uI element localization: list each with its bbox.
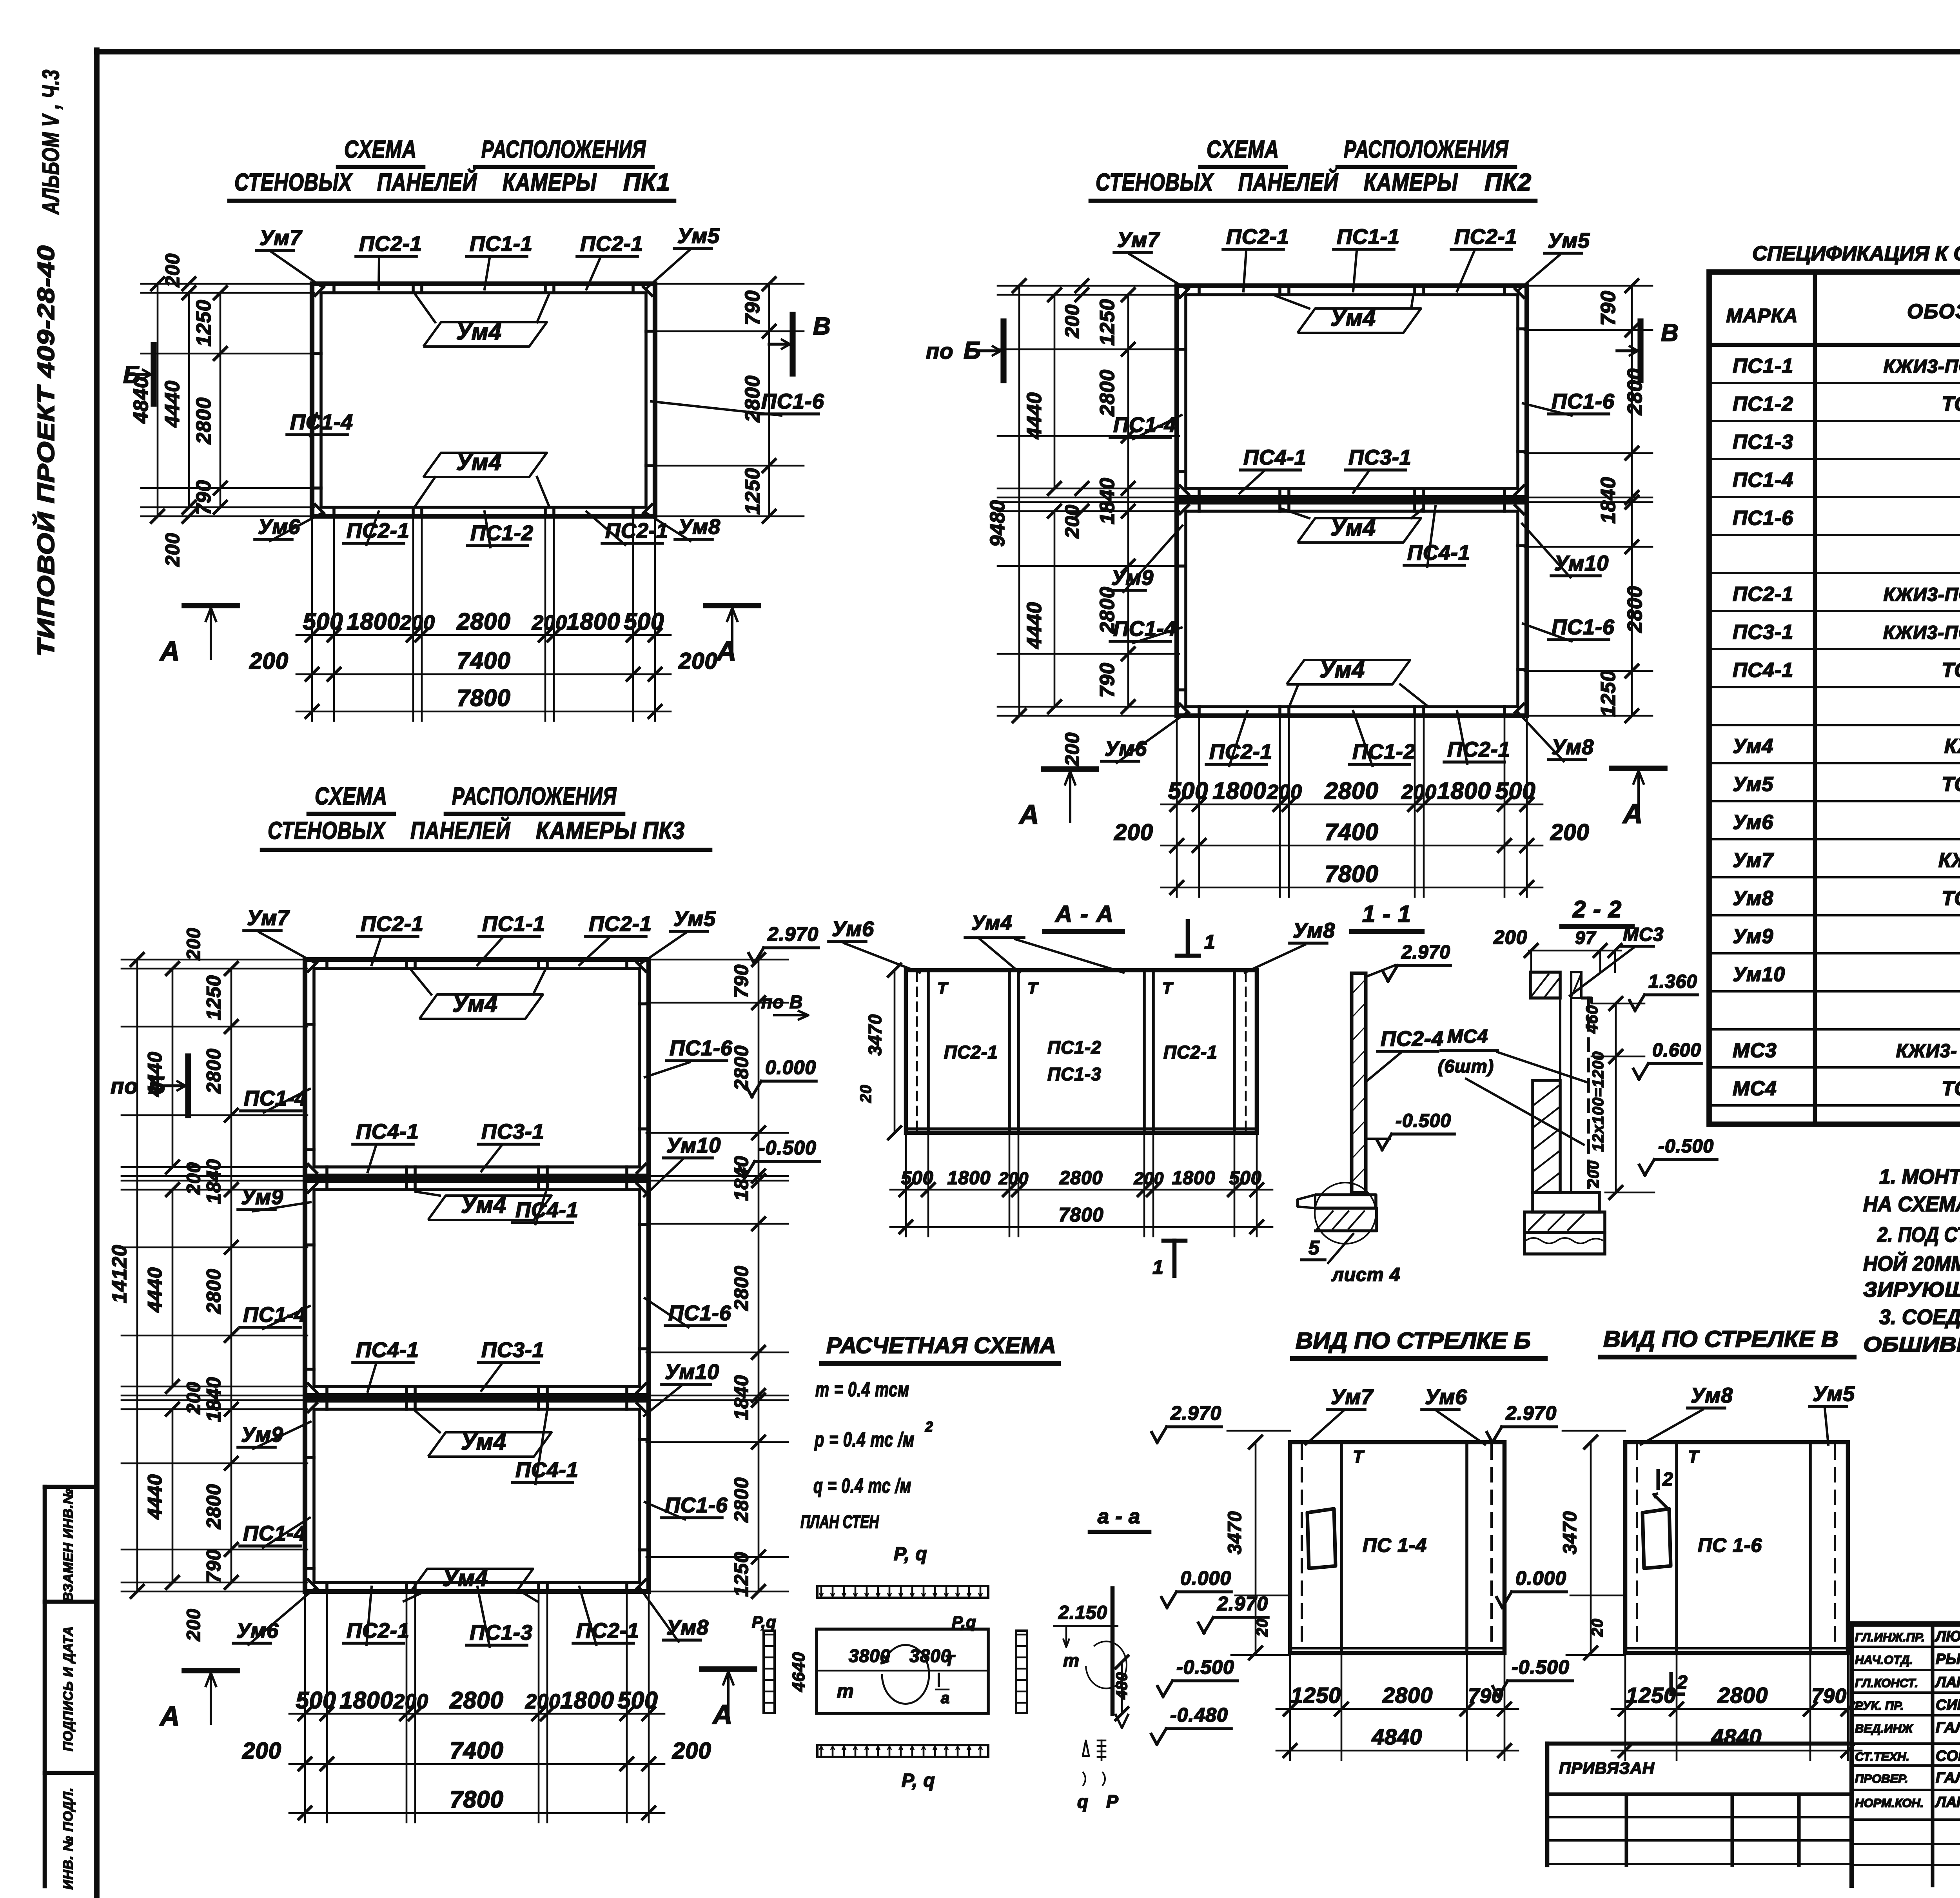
svg-text:Ум6: Ум6 (1733, 811, 1773, 834)
svg-text:РАСПОЛОЖЕНИЯ: РАСПОЛОЖЕНИЯ (1344, 136, 1509, 163)
svg-text:2800: 2800 (730, 1045, 752, 1091)
svg-text:200: 200 (242, 1738, 281, 1764)
svg-text:КЖИ3-ПС1-1÷ПС1-7: КЖИ3-ПС1-1÷ПС1-7 (1884, 356, 1960, 377)
svg-text:97: 97 (1575, 927, 1597, 948)
svg-text:ПС2-1: ПС2-1 (580, 232, 643, 256)
svg-text:1840: 1840 (203, 1377, 225, 1422)
svg-text:1800: 1800 (1437, 778, 1491, 804)
svg-text:Ум5: Ум5 (677, 224, 720, 248)
svg-text:2800: 2800 (203, 1048, 225, 1094)
svg-text:В: В (1661, 319, 1679, 347)
svg-text:ГЛ.ИНЖ.ПР.: ГЛ.ИНЖ.ПР. (1855, 1630, 1925, 1644)
svg-text:7800: 7800 (1325, 861, 1378, 887)
svg-text:2800: 2800 (1624, 586, 1646, 633)
svg-text:460: 460 (1583, 1005, 1601, 1034)
svg-text:(6шт): (6шт) (1438, 1056, 1494, 1076)
svg-text:ГАЛЬПЕРИНА: ГАЛЬПЕРИНА (1936, 1720, 1960, 1736)
svg-text:Ум8: Ум8 (1293, 919, 1335, 942)
svg-text:200: 200 (249, 648, 289, 674)
svg-text:790: 790 (1811, 1685, 1847, 1707)
svg-text:А - А: А - А (1054, 901, 1114, 927)
svg-text:200: 200 (1061, 732, 1083, 766)
svg-text:РАСПОЛОЖЕНИЯ: РАСПОЛОЖЕНИЯ (452, 783, 617, 810)
svg-text:ПС3-1: ПС3-1 (1348, 446, 1412, 469)
svg-text:Ум5: Ум5 (1733, 773, 1773, 796)
svg-text:ОБШИВКИ ( ∠90 х 70 х 4) СМ.: ОБШИВКИ ( ∠90 х 70 х 4) СМ. УЗЕЛ 6 НА ЛИ… (1863, 1333, 1960, 1356)
svg-text:1840: 1840 (1597, 477, 1620, 524)
svg-text:Т: Т (945, 1652, 956, 1669)
svg-text:1: 1 (1204, 931, 1216, 953)
svg-text:МС3: МС3 (1733, 1039, 1777, 1062)
svg-text:НОЙ 20ММ , ИЗ БЕТОНА МАРКИ: НОЙ 20ММ , ИЗ БЕТОНА МАРКИ 100 НА МЕЛКОМ… (1863, 1251, 1960, 1276)
svg-text:А: А (1622, 798, 1643, 829)
svg-text:ПС1-6: ПС1-6 (670, 1036, 733, 1060)
svg-text:m: m (837, 1681, 854, 1702)
svg-text:0.000: 0.000 (1515, 1567, 1566, 1589)
svg-text:-0.500: -0.500 (1512, 1656, 1570, 1678)
svg-text:790: 790 (1597, 290, 1620, 326)
svg-text:Т: Т (937, 979, 949, 997)
svg-text:Б: Б (964, 337, 981, 364)
svg-text:4640: 4640 (789, 1652, 808, 1692)
svg-text:ПС2-1: ПС2-1 (605, 519, 668, 543)
svg-text:1250: 1250 (741, 468, 764, 515)
svg-text:3470: 3470 (1225, 1511, 1245, 1555)
svg-text:ПС2-1: ПС2-1 (944, 1042, 998, 1062)
svg-text:Ум9: Ум9 (241, 1423, 283, 1446)
svg-text:200: 200 (183, 1608, 204, 1641)
svg-text:СХЕМА: СХЕМА (315, 783, 387, 810)
svg-text:200: 200 (1114, 820, 1153, 845)
svg-text:ПРИВЯЗАН: ПРИВЯЗАН (1559, 1759, 1655, 1777)
svg-text:ТО ЖЕ: ТО ЖЕ (1942, 887, 1960, 910)
svg-text:Ум5: Ум5 (1548, 229, 1590, 252)
svg-text:1250: 1250 (1597, 670, 1620, 717)
svg-text:Т: Т (1688, 1447, 1700, 1466)
svg-text:200: 200 (1267, 781, 1302, 804)
svg-text:ПС4-1: ПС4-1 (1733, 659, 1793, 682)
svg-text:Ум5: Ум5 (673, 907, 716, 931)
svg-text:ПС2-1: ПС2-1 (1209, 740, 1272, 764)
svg-text:ПС2-1: ПС2-1 (1447, 738, 1510, 761)
svg-text:ПС4-1: ПС4-1 (356, 1338, 419, 1362)
svg-text:АЛЬБОМ V , Ч.3: АЛЬБОМ V , Ч.3 (38, 69, 64, 215)
svg-text:НОРМ.КОН.: НОРМ.КОН. (1855, 1796, 1924, 1810)
svg-text:ПС 1-6: ПС 1-6 (1698, 1534, 1762, 1556)
svg-text:Б: Б (148, 1072, 166, 1099)
svg-text:200: 200 (162, 253, 183, 287)
svg-text:ВЕД.ИНЖ: ВЕД.ИНЖ (1855, 1722, 1914, 1735)
svg-text:4440: 4440 (161, 380, 184, 428)
svg-text:4440: 4440 (144, 1267, 166, 1312)
svg-text:А: А (159, 636, 180, 666)
svg-text:1250: 1250 (192, 299, 215, 347)
svg-text:p = 0.4 тс /м: p = 0.4 тс /м (814, 1428, 915, 1451)
svg-text:ПС1-4: ПС1-4 (1113, 617, 1176, 641)
svg-text:P, q: P, q (894, 1544, 927, 1564)
svg-text:200: 200 (1585, 1160, 1602, 1188)
svg-text:4840: 4840 (1372, 1724, 1423, 1749)
svg-text:2 - 2: 2 - 2 (1572, 896, 1622, 922)
svg-text:Т: Т (1162, 979, 1174, 997)
svg-text:РУК. ПР.: РУК. ПР. (1855, 1699, 1904, 1713)
svg-text:Ум8: Ум8 (1691, 1384, 1733, 1407)
svg-text:1800: 1800 (1172, 1168, 1216, 1189)
svg-text:Ум7: Ум7 (1331, 1385, 1374, 1409)
svg-text:500: 500 (296, 1687, 336, 1713)
svg-text:2: 2 (1662, 1469, 1673, 1490)
svg-text:1840: 1840 (203, 1159, 225, 1204)
svg-text:ПС4-1: ПС4-1 (515, 1198, 579, 1222)
svg-text:ГАЛЬПЕРИНА: ГАЛЬПЕРИНА (1936, 1770, 1960, 1786)
svg-text:ПС2-4: ПС2-4 (1381, 1027, 1444, 1051)
svg-text:7800: 7800 (450, 1786, 503, 1813)
svg-text:2800: 2800 (1059, 1168, 1103, 1189)
svg-text:1800: 1800 (566, 608, 620, 635)
svg-text:РЫБКИНА: РЫБКИНА (1936, 1651, 1960, 1668)
svg-text:200: 200 (1401, 781, 1437, 804)
svg-text:ПС1-1: ПС1-1 (482, 912, 545, 936)
svg-text:2800: 2800 (741, 375, 764, 423)
svg-text:ПРОВЕР.: ПРОВЕР. (1855, 1772, 1908, 1785)
svg-text:200: 200 (1061, 504, 1083, 539)
svg-text:ПС1-1: ПС1-1 (1733, 355, 1793, 377)
svg-text:СТЕНОВЫХ: СТЕНОВЫХ (1096, 169, 1214, 196)
svg-text:0.000: 0.000 (765, 1056, 816, 1078)
svg-text:2.970: 2.970 (1505, 1402, 1557, 1424)
svg-text:P,q: P,q (952, 1613, 976, 1631)
svg-text:ПС2-1: ПС2-1 (1733, 583, 1793, 606)
svg-text:9480: 9480 (986, 500, 1009, 547)
svg-text:2: 2 (1677, 1672, 1688, 1693)
svg-text:ВИД ПО СТРЕЛКЕ В: ВИД ПО СТРЕЛКЕ В (1603, 1326, 1838, 1352)
svg-text:m = 0.4 тсм: m = 0.4 тсм (815, 1378, 909, 1401)
svg-text:ПС1-6: ПС1-6 (761, 390, 824, 413)
svg-text:-0.500: -0.500 (1396, 1110, 1451, 1131)
svg-text:2800: 2800 (1096, 369, 1119, 417)
svg-text:КЖИ3-ПС2-1÷ПС2-5: КЖИ3-ПС2-1÷ПС2-5 (1884, 584, 1960, 605)
svg-text:1. МОНТАЖ СТЕНОВЫХ ПАНЕЛЕЙ: 1. МОНТАЖ СТЕНОВЫХ ПАНЕЛЕЙ ВЕСТИ В СООТВ… (1879, 1164, 1960, 1189)
svg-text:КАМЕРЫ: КАМЕРЫ (503, 169, 597, 196)
svg-text:ПС4-1: ПС4-1 (515, 1458, 579, 1482)
svg-text:ПК2: ПК2 (1485, 169, 1532, 196)
svg-text:-0.500: -0.500 (1176, 1656, 1234, 1678)
svg-text:ТО ЖЕ: ТО ЖЕ (1942, 393, 1960, 416)
svg-text:ПС1-3: ПС1-3 (1047, 1064, 1102, 1084)
svg-text:0.600: 0.600 (1652, 1040, 1701, 1061)
svg-text:20: 20 (1254, 1619, 1271, 1637)
svg-text:200: 200 (399, 611, 435, 634)
svg-text:200: 200 (1134, 1169, 1164, 1188)
svg-text:ПС1-6: ПС1-6 (1552, 615, 1615, 639)
svg-text:2800: 2800 (456, 608, 510, 635)
svg-text:ПС3-1: ПС3-1 (481, 1120, 544, 1143)
svg-text:2800: 2800 (1324, 778, 1378, 804)
svg-text:1800: 1800 (347, 608, 400, 635)
svg-text:ЛАПКИН: ЛАПКИН (1935, 1794, 1960, 1811)
svg-text:А: А (159, 1701, 180, 1731)
svg-text:Ум9: Ум9 (1111, 566, 1154, 590)
svg-text:Т: Т (1027, 979, 1039, 997)
svg-text:Ум7: Ум7 (247, 906, 290, 930)
svg-text:Ум10: Ум10 (1554, 552, 1609, 575)
svg-text:q: q (1077, 1791, 1089, 1812)
svg-text:2800: 2800 (203, 1484, 225, 1529)
svg-text:В: В (813, 313, 831, 340)
svg-text:Ум4: Ум4 (971, 912, 1012, 934)
svg-text:Ум9: Ум9 (1733, 925, 1773, 948)
svg-text:200: 200 (183, 1381, 204, 1414)
svg-text:2.970: 2.970 (1170, 1402, 1221, 1424)
svg-text:2. ПОД СТЕНОВЫМИ ПАНЕЛЯМИ ПО: 2. ПОД СТЕНОВЫМИ ПАНЕЛЯМИ ПО ПЛИТАМ ДНИЩ… (1877, 1223, 1960, 1247)
svg-text:1: 1 (1152, 1256, 1164, 1278)
svg-text:СИНЕЛЬНИКОВА: СИНЕЛЬНИКОВА (1936, 1697, 1960, 1713)
svg-text:200: 200 (1550, 820, 1590, 845)
svg-text:СТЕНОВЫХ: СТЕНОВЫХ (234, 169, 353, 196)
svg-text:ПС2-1: ПС2-1 (1226, 225, 1289, 249)
svg-text:ВЗАМЕН ИНВ.№: ВЗАМЕН ИНВ.№ (61, 1488, 76, 1602)
svg-text:7400: 7400 (450, 1737, 503, 1764)
svg-text:7400: 7400 (1325, 819, 1378, 845)
svg-text:Б: Б (123, 361, 141, 388)
svg-text:ПЛАН СТЕН: ПЛАН СТЕН (800, 1512, 879, 1532)
svg-text:ПС2-1: ПС2-1 (347, 1619, 410, 1642)
svg-text:200: 200 (393, 1690, 428, 1713)
svg-text:790: 790 (1096, 662, 1119, 698)
svg-text:Ум7: Ум7 (260, 226, 303, 250)
svg-text:m: m (1063, 1650, 1080, 1671)
svg-text:ОБОЗНАЧЕН: ОБОЗНАЧЕН (1907, 300, 1960, 323)
svg-text:-0.480: -0.480 (1170, 1704, 1228, 1726)
svg-text:МС4: МС4 (1447, 1026, 1488, 1047)
svg-text:2: 2 (925, 1419, 933, 1435)
svg-text:ГЛ.КОНСТ.: ГЛ.КОНСТ. (1855, 1676, 1918, 1690)
svg-text:Ум10: Ум10 (666, 1134, 721, 1157)
svg-text:12х100=1200: 12х100=1200 (1590, 1051, 1607, 1152)
svg-text:А: А (712, 1699, 733, 1730)
svg-text:7800: 7800 (1058, 1204, 1103, 1226)
svg-text:2800: 2800 (730, 1477, 752, 1522)
svg-text:ЛЮБАВИН: ЛЮБАВИН (1935, 1628, 1960, 1645)
svg-text:200: 200 (672, 1738, 711, 1764)
svg-text:200: 200 (998, 1169, 1029, 1188)
svg-text:ЗИРУЮЩЕЙ ДОБАВКОЙ ГКЖ - 94: ЗИРУЮЩЕЙ ДОБАВКОЙ ГКЖ - 94. (1863, 1277, 1960, 1301)
svg-text:ТО ЖЕ: ТО ЖЕ (1942, 659, 1960, 682)
svg-text:СХЕМА: СХЕМА (344, 136, 417, 163)
svg-text:ПС1-6: ПС1-6 (1733, 507, 1793, 530)
svg-text:500: 500 (624, 608, 664, 635)
svg-text:500: 500 (303, 608, 343, 635)
svg-text:200: 200 (525, 1690, 561, 1713)
svg-text:0.000: 0.000 (1180, 1567, 1231, 1589)
svg-text:СТЕНОВЫХ: СТЕНОВЫХ (268, 817, 386, 844)
svg-text:1.360: 1.360 (1648, 971, 1697, 992)
svg-text:Ум8: Ум8 (666, 1616, 709, 1639)
svg-text:500: 500 (1168, 778, 1208, 804)
svg-text:ПС 1-4: ПС 1-4 (1363, 1534, 1427, 1556)
svg-text:НАЧ.ОТД.: НАЧ.ОТД. (1855, 1653, 1913, 1667)
svg-text:ПС1-3: ПС1-3 (1733, 431, 1793, 454)
svg-text:790: 790 (203, 1549, 225, 1583)
svg-text:500: 500 (901, 1168, 933, 1189)
svg-text:ПС4-1: ПС4-1 (1407, 541, 1470, 564)
svg-text:ПС2-1: ПС2-1 (359, 232, 422, 256)
svg-text:СХЕМА: СХЕМА (1207, 136, 1279, 163)
svg-text:ПОДПИСЬ И ДАТА: ПОДПИСЬ И ДАТА (61, 1626, 76, 1751)
svg-text:ВИД ПО СТРЕЛКЕ Б: ВИД ПО СТРЕЛКЕ Б (1296, 1328, 1531, 1354)
svg-text:1840: 1840 (730, 1156, 752, 1201)
svg-text:ПС2-1: ПС2-1 (1454, 225, 1517, 249)
svg-text:по: по (926, 339, 953, 363)
svg-text:1250: 1250 (1626, 1683, 1677, 1707)
svg-text:а - а: а - а (1098, 1505, 1140, 1528)
svg-text:А: А (716, 636, 737, 666)
svg-text:ПС2-1: ПС2-1 (1163, 1042, 1218, 1062)
svg-text:3. СОЕДИНИТЕЛЬНЫЕ ИЗДЕЛИЯ МС: 3. СОЕДИНИТЕЛЬНЫЕ ИЗДЕЛИЯ МС3, МС4 ПРИВА… (1879, 1305, 1960, 1329)
svg-text:ПАНЕЛЕЙ: ПАНЕЛЕЙ (1238, 168, 1338, 196)
svg-text:790: 790 (730, 964, 752, 998)
svg-text:200: 200 (183, 927, 204, 960)
svg-text:Т: Т (1353, 1447, 1365, 1466)
svg-text:Ум6: Ум6 (236, 1619, 279, 1642)
svg-text:2800: 2800 (730, 1265, 752, 1311)
svg-text:2800: 2800 (1382, 1683, 1433, 1707)
svg-text:200: 200 (183, 1162, 204, 1195)
svg-text:СТ.ТЕХН.: СТ.ТЕХН. (1855, 1750, 1909, 1764)
svg-text:790: 790 (741, 290, 764, 325)
svg-text:2800: 2800 (1717, 1683, 1768, 1707)
svg-text:ПС1-3: ПС1-3 (470, 1621, 533, 1644)
svg-text:по: по (111, 1074, 138, 1098)
svg-text:СОБОЛЕВА: СОБОЛЕВА (1936, 1748, 1960, 1764)
svg-text:Ум6: Ум6 (1425, 1385, 1467, 1409)
svg-text:20: 20 (857, 1085, 875, 1103)
svg-text:ИНВ. № ПОДЛ.: ИНВ. № ПОДЛ. (61, 1787, 76, 1890)
svg-text:1800: 1800 (1212, 778, 1266, 804)
svg-text:КЖИ3-ПС3-1, ПС4-1: КЖИ3-ПС3-1, ПС4-1 (1883, 622, 1960, 643)
svg-text:МАРКА: МАРКА (1726, 305, 1798, 327)
svg-text:4440: 4440 (1023, 392, 1046, 439)
svg-text:ПС1-6: ПС1-6 (665, 1493, 728, 1517)
svg-text:ПС1-4: ПС1-4 (290, 410, 353, 434)
svg-text:ПС2-1: ПС2-1 (576, 1619, 639, 1642)
svg-text:1250: 1250 (730, 1551, 752, 1597)
svg-text:ПС2-1: ПС2-1 (361, 912, 424, 936)
svg-text:2.970: 2.970 (1217, 1593, 1268, 1615)
svg-text:МС3: МС3 (1623, 924, 1664, 945)
svg-text:ПС2-1: ПС2-1 (347, 519, 410, 543)
svg-text:ТО ЖЕ: ТО ЖЕ (1942, 1077, 1960, 1100)
svg-text:ЛАПКИН: ЛАПКИН (1935, 1674, 1960, 1691)
svg-text:Ум5: Ум5 (1813, 1382, 1855, 1406)
svg-text:2800: 2800 (1096, 586, 1119, 634)
svg-text:200: 200 (532, 611, 567, 634)
svg-text:P, q: P, q (902, 1770, 935, 1791)
svg-text:500: 500 (1229, 1168, 1261, 1189)
svg-text:лист 4: лист 4 (1331, 1265, 1401, 1285)
svg-text:ПС2-1: ПС2-1 (589, 912, 652, 936)
svg-text:2.150: 2.150 (1058, 1602, 1107, 1623)
svg-text:Ум8: Ум8 (678, 515, 720, 539)
svg-text:Р: Р (1106, 1791, 1119, 1812)
svg-text:Ум4: Ум4 (1733, 735, 1773, 758)
svg-text:ПС1-2: ПС1-2 (470, 521, 534, 545)
svg-text:Ум8: Ум8 (1733, 887, 1773, 910)
svg-text:1250: 1250 (1096, 299, 1119, 346)
svg-text:Ум7: Ум7 (1733, 849, 1774, 872)
svg-text:ПС4-1: ПС4-1 (356, 1120, 419, 1143)
svg-text:ПС3-1: ПС3-1 (1733, 621, 1793, 644)
svg-text:а: а (941, 1689, 950, 1707)
svg-text:по В: по В (761, 992, 803, 1012)
svg-text:РАСЧЕТНАЯ СХЕМА: РАСЧЕТНАЯ СХЕМА (826, 1333, 1056, 1358)
svg-text:А: А (1018, 799, 1040, 830)
svg-text:Ум10: Ум10 (1733, 963, 1785, 986)
svg-text:q = 0.4 тс /м: q = 0.4 тс /м (813, 1475, 911, 1497)
svg-text:3470: 3470 (865, 1014, 885, 1056)
svg-text:ПС1-2: ПС1-2 (1047, 1037, 1102, 1058)
svg-text:НА СХЕМАХ РАСПОЛОЖЕНИЯ: НА СХЕМАХ РАСПОЛОЖЕНИЯ СТЕНОВЫХ ПАНЕЛЕЙ. (1863, 1192, 1960, 1216)
svg-text:500: 500 (617, 1687, 658, 1713)
svg-text:200: 200 (1493, 926, 1527, 948)
svg-text:2800: 2800 (203, 1268, 225, 1314)
svg-text:-0.500: -0.500 (1658, 1136, 1714, 1157)
svg-text:ПАНЕЛЕЙ: ПАНЕЛЕЙ (377, 168, 477, 196)
svg-text:ТО ЖЕ: ТО ЖЕ (1942, 773, 1960, 796)
svg-text:ПС1-6: ПС1-6 (1552, 390, 1615, 413)
svg-text:РАСПОЛОЖЕНИЯ: РАСПОЛОЖЕНИЯ (481, 136, 646, 163)
svg-text:1250: 1250 (1291, 1683, 1341, 1707)
svg-text:ТИПОВОЙ ПРОЕКТ 409-28-40: ТИПОВОЙ ПРОЕКТ 409-28-40 (33, 245, 59, 657)
svg-text:P,q: P,q (752, 1613, 777, 1631)
svg-text:-0.500: -0.500 (759, 1137, 817, 1159)
svg-text:7800: 7800 (457, 685, 510, 711)
svg-text:СПЕЦИФИКАЦИЯ К СХЕМАМ РАСПО: СПЕЦИФИКАЦИЯ К СХЕМАМ РАСПОЛОЖЕНИЯ СТЕНО… (1752, 241, 1960, 265)
svg-text:КАМЕРЫ: КАМЕРЫ (1364, 169, 1458, 196)
svg-text:500: 500 (1495, 778, 1535, 804)
svg-text:200: 200 (678, 648, 718, 674)
svg-text:2.970: 2.970 (1401, 942, 1450, 963)
svg-text:2.970: 2.970 (767, 923, 818, 945)
svg-text:ПС1-4: ПС1-4 (1733, 469, 1793, 492)
svg-text:1 - 1: 1 - 1 (1362, 901, 1411, 927)
svg-text:ПК1: ПК1 (623, 169, 670, 196)
svg-text:Ум7: Ум7 (1117, 228, 1160, 252)
svg-text:ПС1-2: ПС1-2 (1352, 740, 1416, 764)
svg-text:КАМЕРЫ ПК3: КАМЕРЫ ПК3 (536, 817, 685, 844)
svg-text:КЖ9-9: КЖ9-9 (1944, 735, 1960, 758)
svg-text:200: 200 (162, 533, 183, 567)
svg-text:КЖИ3- МС1÷МС8: КЖИ3- МС1÷МС8 (1896, 1041, 1960, 1062)
svg-text:1250: 1250 (203, 975, 225, 1020)
svg-text:1800: 1800 (560, 1687, 614, 1713)
svg-text:КЖ9-10: КЖ9-10 (1938, 849, 1960, 872)
svg-text:20: 20 (1589, 1619, 1606, 1637)
svg-text:ПС3-1: ПС3-1 (481, 1338, 544, 1362)
svg-text:Ум10: Ум10 (665, 1360, 719, 1384)
svg-text:ПАНЕЛЕЙ: ПАНЕЛЕЙ (410, 817, 510, 844)
svg-text:ПС4-1: ПС4-1 (1243, 446, 1307, 469)
svg-text:1840: 1840 (730, 1375, 752, 1420)
svg-text:200: 200 (1061, 304, 1083, 338)
svg-text:1800: 1800 (947, 1168, 991, 1189)
svg-text:7400: 7400 (457, 648, 510, 674)
svg-text:3470: 3470 (1560, 1511, 1581, 1555)
svg-text:ПС1-1: ПС1-1 (1337, 225, 1400, 249)
svg-text:ПС1-2: ПС1-2 (1733, 393, 1793, 416)
svg-text:1800: 1800 (339, 1687, 393, 1713)
svg-text:Ум6: Ум6 (832, 917, 874, 941)
